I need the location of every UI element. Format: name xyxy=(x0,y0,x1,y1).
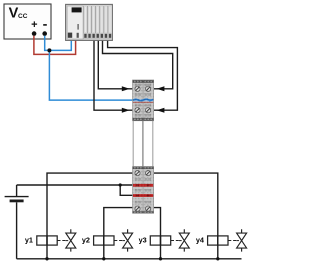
junction bus y1 xyxy=(45,257,48,260)
PLC module U1 xyxy=(66,4,113,40)
svg-text:CC: CC xyxy=(18,13,28,20)
wire PLC output O2 to block right upper xyxy=(103,40,173,89)
wire block row4 right to coil y3 xyxy=(154,208,161,259)
wire block row4 left to coil y2 xyxy=(104,208,133,259)
wire coil y2 vertical (through coil) xyxy=(103,236,105,245)
svg-text:y3: y3 xyxy=(139,236,147,245)
svg-text:y4: y4 xyxy=(196,236,205,245)
wire branch to block row3 xyxy=(120,185,132,195)
valve symbol linked to y2 xyxy=(114,229,132,251)
solenoid coil y1 xyxy=(25,236,57,246)
wire blue from Vcc- to PLC xyxy=(45,36,72,51)
arrow into block left lower xyxy=(122,108,130,113)
svg-text:y1: y1 xyxy=(25,236,33,245)
wire PLC output O1 to block left upper xyxy=(98,40,132,89)
wire coil y4 vertical (through coil) xyxy=(217,236,219,245)
arrow into block right upper xyxy=(157,86,165,91)
solenoid coil y4 xyxy=(196,236,228,246)
terminal block texture overlay xyxy=(133,80,154,121)
battery B1 xyxy=(5,185,29,259)
wire PLC output O0 to block left lower xyxy=(94,40,133,110)
valve symbol linked to y1 xyxy=(58,229,76,251)
junction bus y4 xyxy=(216,257,219,260)
terminal block X1 middle rails xyxy=(133,121,153,167)
valve symbol linked to y3 xyxy=(171,229,189,251)
arrow into block right lower xyxy=(157,108,165,113)
arrow into block left upper xyxy=(122,86,130,91)
terminal block X1 top section xyxy=(133,80,154,121)
wire coil y1 vertical (through coil) xyxy=(46,236,48,245)
wire coil y3 vertical (through coil) xyxy=(160,236,162,245)
terminal block X1 bottom section xyxy=(133,167,154,214)
wire battery plus to block row2 xyxy=(17,184,133,186)
junction bus y3 xyxy=(159,257,162,260)
junction bus y2 xyxy=(102,257,105,260)
junction node row2 branch xyxy=(119,183,122,186)
wire red from Vcc+ to PLC xyxy=(34,36,76,55)
junction blue node xyxy=(47,48,51,52)
Vcc positive terminal xyxy=(32,31,37,36)
wire PLC output O3 to block right lower xyxy=(108,40,178,110)
wire block row1 right to coil y4 xyxy=(154,173,218,259)
wire block row1 left to coil y1 xyxy=(47,173,133,259)
wire blue branch to terminal block xyxy=(49,50,150,100)
Vcc minus label xyxy=(43,24,47,26)
voltage source Vcc box xyxy=(4,4,51,39)
valve symbol linked to y4 xyxy=(228,229,246,251)
svg-text:y2: y2 xyxy=(82,236,90,245)
Vcc negative terminal xyxy=(42,31,47,36)
svg-text:+: + xyxy=(31,19,37,31)
solenoid coil y3 xyxy=(139,236,171,246)
solenoid coil y2 xyxy=(82,236,114,246)
wire bottom bus xyxy=(17,258,242,260)
